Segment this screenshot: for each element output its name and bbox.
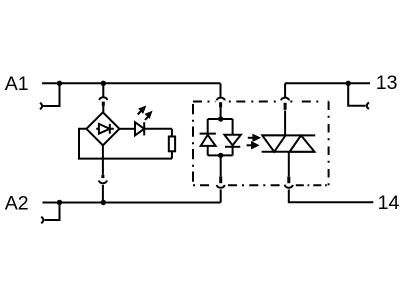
svg-text:A1: A1 xyxy=(5,73,29,95)
svg-text:A2: A2 xyxy=(5,193,29,215)
svg-text:13: 13 xyxy=(376,72,398,94)
svg-text:14: 14 xyxy=(378,192,400,214)
